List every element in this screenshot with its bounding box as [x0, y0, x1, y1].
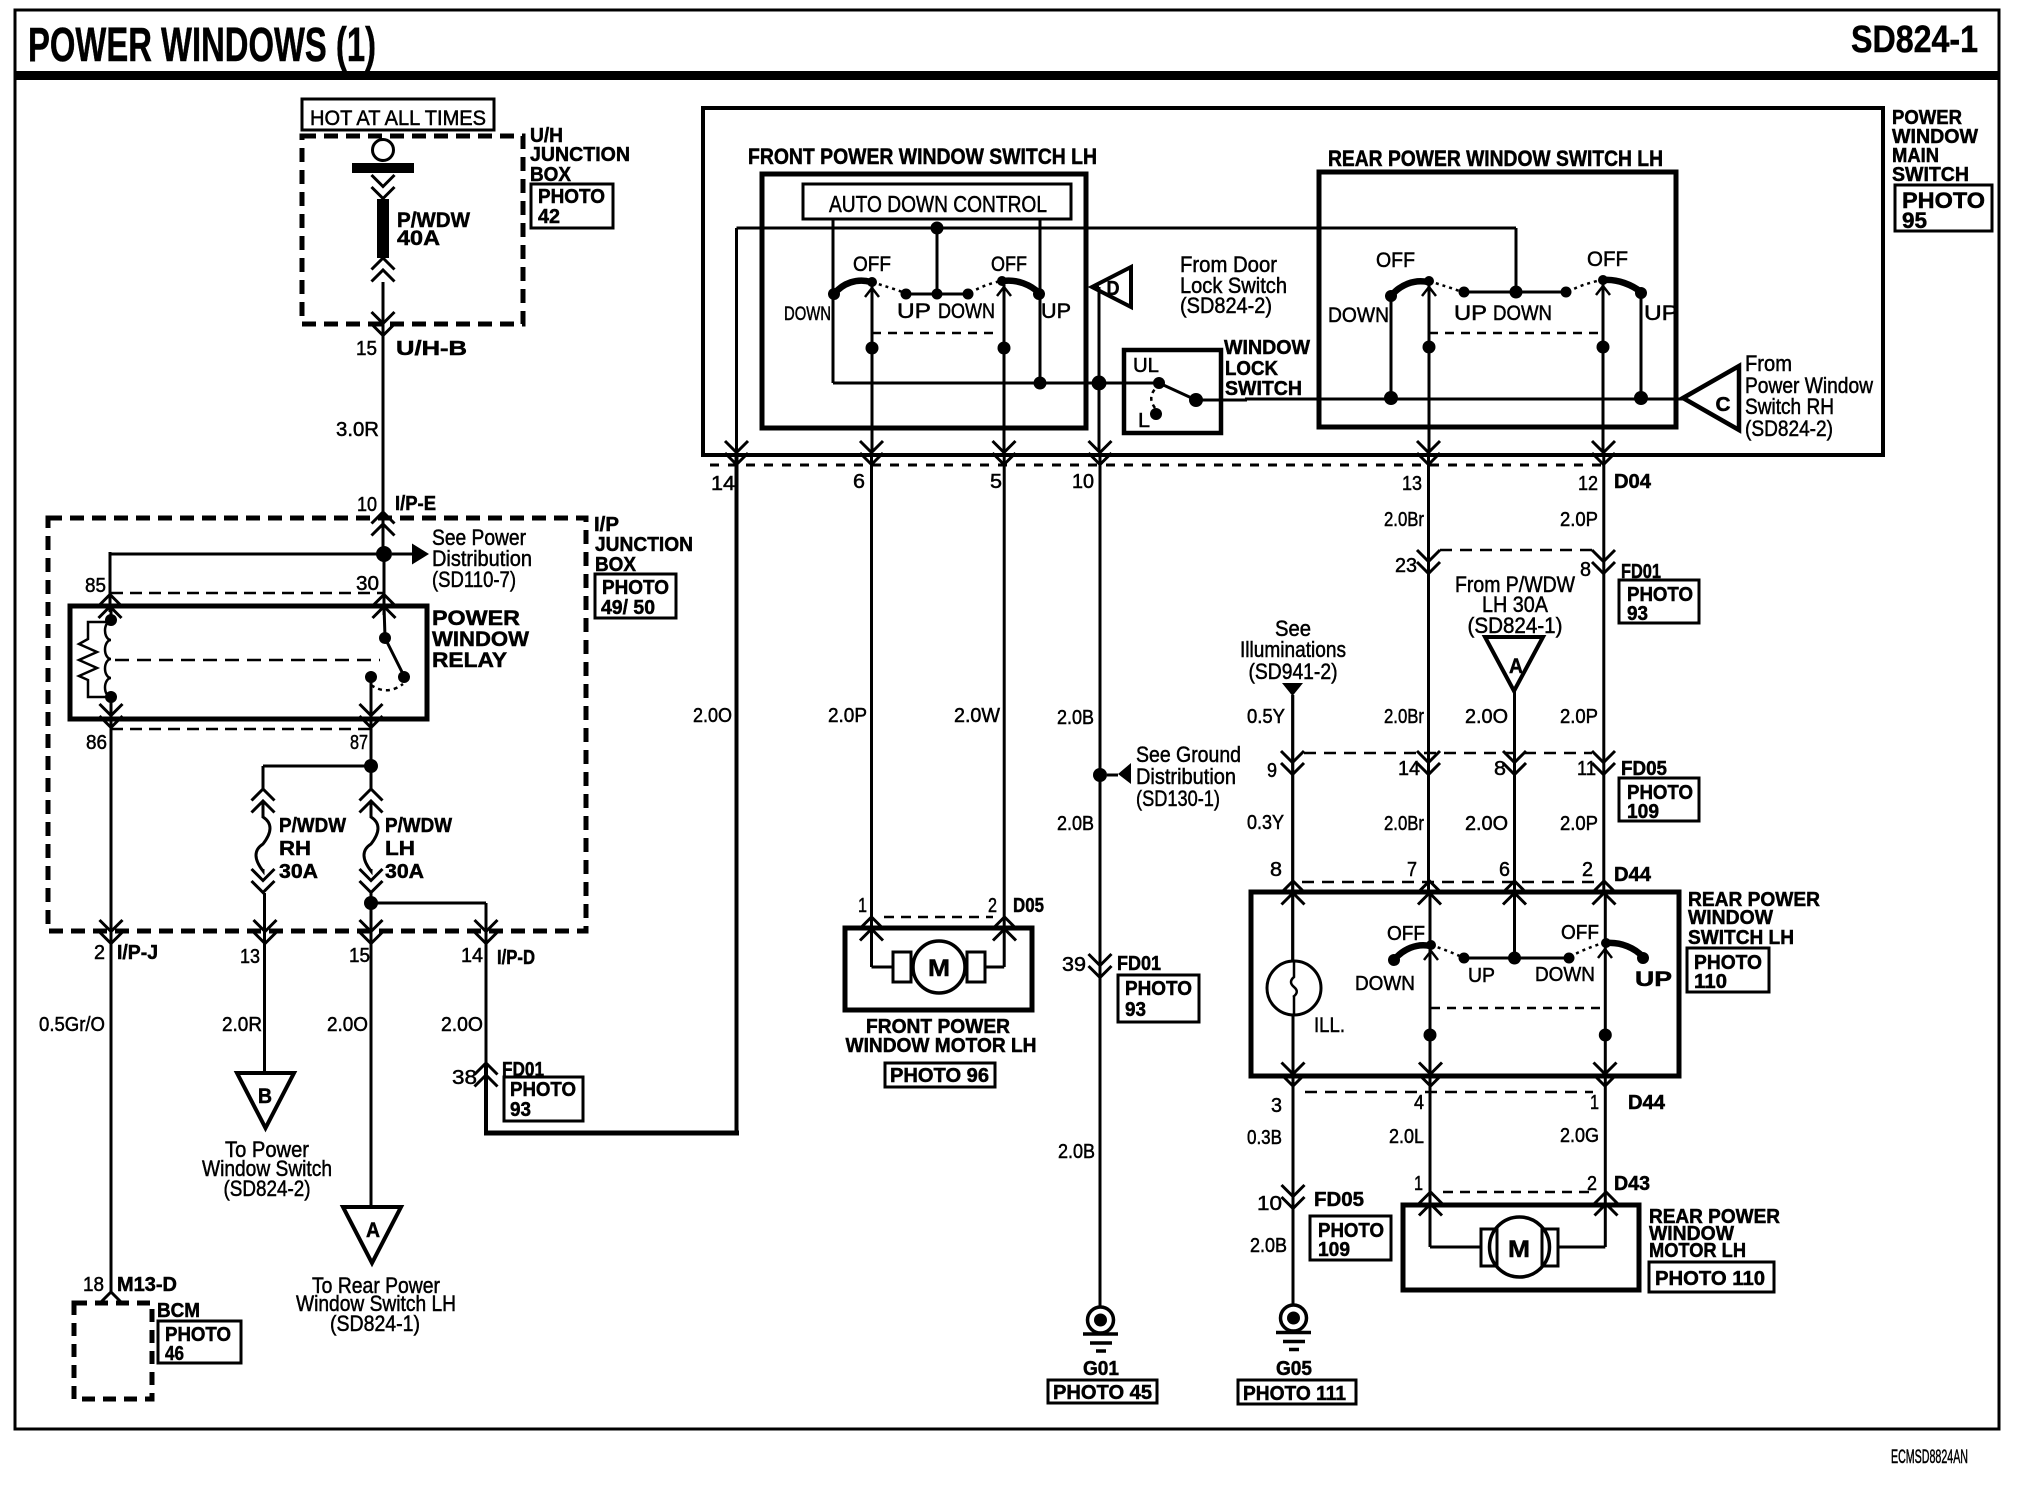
- relay internal dashed separator: [115, 659, 380, 662]
- svg-text:UP: UP: [897, 300, 931, 323]
- svg-text:PHOTO 45: PHOTO 45: [1053, 1382, 1152, 1404]
- rocker arm (thick): [1607, 943, 1643, 957]
- PHOTO 45 box: [1048, 1380, 1157, 1403]
- svg-text:6: 6: [853, 471, 865, 493]
- wire rear switch bottom bus to triangle C: [1245, 398, 1683, 401]
- svg-text:39: 39: [1062, 954, 1086, 976]
- connector FD01 pin 38: [475, 1063, 498, 1087]
- svg-text:2: 2: [988, 895, 997, 917]
- svg-text:93: 93: [1627, 603, 1648, 625]
- PHOTO 96 box: [885, 1063, 995, 1087]
- wire fuse RH / 2.0R to triangle B: [263, 893, 266, 1073]
- svg-text:POWER WINDOWS (1): POWER WINDOWS (1): [28, 19, 376, 72]
- svg-text:87: 87: [350, 732, 368, 754]
- svg-text:30A: 30A: [385, 861, 424, 883]
- svg-text:14: 14: [711, 473, 735, 495]
- connector D44 pin 6: [1503, 881, 1526, 905]
- svg-text:8: 8: [1494, 758, 1506, 780]
- wire DOWN contact down: [1390, 296, 1393, 398]
- svg-text:85: 85: [85, 575, 106, 597]
- svg-text:1: 1: [858, 895, 867, 917]
- connector D43 pin 1: [1419, 1192, 1442, 1216]
- wire to pin 10: [1098, 383, 1101, 452]
- svg-text:ECMSD8824AN: ECMSD8824AN: [1891, 1447, 1968, 1468]
- svg-text:HOT AT ALL TIMES: HOT AT ALL TIMES: [310, 107, 486, 130]
- svg-text:DOWN: DOWN: [1355, 973, 1415, 995]
- svg-text:SWITCH: SWITCH: [1892, 164, 1969, 186]
- rear power window switch box (in main switch): [1319, 172, 1676, 427]
- svg-text:2.0B: 2.0B: [1057, 707, 1094, 729]
- connector pin 15: [360, 920, 383, 944]
- svg-text:2.0P: 2.0P: [828, 705, 867, 727]
- rocker arm (thick): [834, 281, 871, 294]
- front power window switch box: [762, 174, 1086, 428]
- front motor M: [872, 966, 894, 969]
- svg-text:DOWN: DOWN: [1493, 302, 1552, 325]
- svg-text:PHOTO: PHOTO: [538, 186, 605, 208]
- svg-text:A: A: [366, 1219, 380, 1242]
- relay coil: [110, 606, 113, 621]
- wire pivot to pin 5: [1003, 285, 1006, 452]
- svg-text:2.0O: 2.0O: [327, 1014, 368, 1036]
- pivot node: [866, 342, 879, 355]
- svg-text:14: 14: [461, 945, 483, 967]
- contact UP rear-left rocker: [1459, 287, 1470, 298]
- relay connector dashed 86/87: [111, 728, 371, 731]
- svg-text:3.0R: 3.0R: [336, 419, 379, 441]
- lock switch alternate (dashed): [1151, 388, 1156, 408]
- battery feed symbol: [373, 140, 394, 161]
- connector D04 pin 13: [1417, 441, 1440, 465]
- svg-text:15: 15: [356, 338, 377, 360]
- ILL lamp: [1267, 961, 1321, 1015]
- connector D04 pin 10: [1089, 441, 1112, 465]
- connector chevrons below fuse: [372, 258, 395, 282]
- contact DOWN: [1385, 290, 1397, 302]
- svg-text:D05: D05: [1013, 895, 1044, 917]
- window lock switch box: [1124, 350, 1221, 433]
- svg-text:95: 95: [1902, 208, 1927, 233]
- svg-text:P/WDW: P/WDW: [279, 815, 346, 837]
- contact DOWN right rocker: [1564, 953, 1575, 964]
- triangle B to power window switch: [237, 1073, 294, 1128]
- svg-text:1: 1: [1414, 1173, 1423, 1195]
- svg-text:WINDOW: WINDOW: [1688, 907, 1773, 929]
- connector FD05 pin 14: [1417, 751, 1440, 775]
- PHOTO 46 box: [158, 1321, 241, 1363]
- wire fuse to I/P junction: [382, 282, 385, 554]
- contact UP front-left rocker: [901, 289, 912, 300]
- svg-text:POWER: POWER: [432, 607, 520, 630]
- contact UP: [1637, 952, 1649, 964]
- rear motor M: [1430, 1246, 1481, 1249]
- rear power window motor box: [1403, 1205, 1639, 1290]
- svg-text:9: 9: [1267, 760, 1277, 782]
- svg-text:93: 93: [1125, 999, 1146, 1021]
- svg-text:(SD824-2): (SD824-2): [224, 1176, 311, 1201]
- wire 2.0O heavy vertical run to pin 14: [735, 455, 739, 1133]
- svg-text:OFF: OFF: [991, 253, 1027, 276]
- power window relay box: [70, 606, 427, 719]
- svg-text:15: 15: [349, 945, 370, 967]
- connector D44 pin 7: [1418, 881, 1441, 905]
- svg-text:0.5Gr/O: 0.5Gr/O: [39, 1014, 105, 1036]
- svg-text:U/H-B: U/H-B: [396, 338, 467, 360]
- svg-text:12: 12: [1578, 473, 1598, 495]
- connector D04 pin 5: [993, 441, 1016, 465]
- node LH fuse branch: [364, 896, 378, 910]
- connector D44 pin 8: [1282, 881, 1305, 905]
- connector D43 pin 2: [1595, 1192, 1618, 1216]
- connector FD05 pin 10: [1282, 1185, 1305, 1209]
- svg-text:FD05: FD05: [1314, 1189, 1364, 1211]
- D05 connector dashed: [884, 916, 993, 919]
- connector chevrons below battery bar: [372, 175, 395, 199]
- svg-text:2.0O: 2.0O: [441, 1014, 483, 1036]
- connector FD01 pin 8: [1592, 550, 1615, 574]
- svg-text:M13-D: M13-D: [117, 1274, 177, 1296]
- node: power distribution junction: [376, 546, 392, 562]
- svg-text:13: 13: [240, 946, 260, 968]
- svg-text:OFF: OFF: [1387, 923, 1425, 945]
- svg-text:2.0G: 2.0G: [1560, 1125, 1599, 1147]
- svg-text:UL: UL: [1133, 355, 1159, 377]
- rocker throw (dotted): [970, 281, 1001, 293]
- wire pin 87: [370, 681, 373, 766]
- svg-text:OFF: OFF: [1587, 248, 1628, 271]
- svg-text:2.0O: 2.0O: [693, 705, 732, 727]
- svg-text:2: 2: [94, 942, 105, 964]
- contact DOWN rear-right rocker: [1561, 287, 1572, 298]
- connector pin 30: [373, 595, 396, 619]
- svg-text:D43: D43: [1614, 1173, 1650, 1195]
- connector pin 23: [1417, 550, 1440, 574]
- node lock/door-lock junction: [1092, 376, 1107, 391]
- svg-text:2.0P: 2.0P: [1560, 509, 1598, 531]
- PHOTO 110 box (switch): [1687, 948, 1769, 992]
- contact UP: [1033, 288, 1045, 300]
- PHOTO 93 box (FD01 8): [1619, 580, 1699, 623]
- connector pin 86: [100, 704, 123, 728]
- svg-text:0.5Y: 0.5Y: [1247, 706, 1285, 728]
- node pin 87 branch: [364, 759, 378, 773]
- connector row D44 (lower): [1305, 1091, 1593, 1094]
- triangle C from power window switch RH: [1683, 366, 1739, 430]
- svg-text:0.3Y: 0.3Y: [1247, 812, 1284, 834]
- svg-text:FRONT POWER WINDOW SWITCH LH: FRONT POWER WINDOW SWITCH LH: [748, 144, 1097, 169]
- svg-text:C: C: [1716, 394, 1731, 416]
- PHOTO 109 box (FD05 10): [1310, 1216, 1391, 1260]
- svg-text:D44: D44: [1614, 864, 1652, 886]
- connector FD05 pin 8: [1503, 751, 1526, 775]
- svg-text:DOWN: DOWN: [938, 300, 995, 323]
- wire pivot pin 2 / pin 1 / 2.0G to motor: [1604, 891, 1607, 1247]
- wire FD01 38 down: [484, 1063, 488, 1133]
- svg-text:2.0Br: 2.0Br: [1384, 509, 1424, 531]
- svg-text:6: 6: [1499, 859, 1510, 881]
- svg-text:93: 93: [510, 1099, 531, 1121]
- pivot node: [1597, 341, 1610, 354]
- svg-text:ILL.: ILL.: [1314, 1014, 1345, 1037]
- connector I/P-D pin 14: [475, 920, 498, 944]
- svg-text:JUNCTION: JUNCTION: [530, 144, 630, 166]
- svg-text:SWITCH: SWITCH: [1225, 378, 1302, 400]
- svg-text:LOCK: LOCK: [1225, 358, 1279, 380]
- ground G01: [1088, 1307, 1114, 1333]
- wire 0.3B / 2.0B to ground G05: [1292, 1014, 1295, 1306]
- wire 2.0P column: [1602, 455, 1605, 891]
- rocker arm (thick): [1003, 281, 1039, 293]
- wire pin14 feed across to rear switch: [737, 227, 1517, 230]
- wire 2.0Br column: [1427, 455, 1430, 891]
- connector D44 pin 4: [1419, 1063, 1442, 1087]
- svg-text:PHOTO: PHOTO: [510, 1079, 576, 1101]
- svg-text:2: 2: [1582, 859, 1593, 881]
- wire pivot pin 7 / pin 4 / 2.0L to motor: [1429, 891, 1432, 1247]
- wire to relay pin 85: [110, 553, 384, 556]
- svg-text:2.0Br: 2.0Br: [1384, 813, 1424, 835]
- rocker throw (dotted): [1431, 945, 1462, 957]
- PHOTO 93 box (FD01 39): [1118, 975, 1199, 1022]
- wire UP contact down: [1640, 293, 1643, 398]
- rocker throw (dotted): [1568, 280, 1601, 292]
- svg-text:WINDOW: WINDOW: [432, 628, 529, 651]
- U/H junction box (dashed): [302, 136, 523, 324]
- svg-text:10: 10: [1257, 1193, 1282, 1215]
- PHOTO 49/ 50 box: [595, 574, 676, 618]
- rocker throw (dotted): [1429, 281, 1462, 292]
- connector pin 87: [360, 704, 383, 728]
- rear power window switch LH box: [1251, 892, 1679, 1076]
- svg-text:PHOTO 111: PHOTO 111: [1243, 1383, 1346, 1405]
- svg-text:G01: G01: [1083, 1358, 1119, 1380]
- front rocker linkage (dashed): [872, 332, 1000, 335]
- svg-text:2.0B: 2.0B: [1250, 1235, 1287, 1257]
- svg-text:D: D: [1107, 278, 1120, 300]
- relay switch: [384, 606, 385, 637]
- connector D44 pin 3: [1282, 1063, 1305, 1087]
- svg-text:M: M: [928, 955, 950, 982]
- svg-text:109: 109: [1627, 801, 1659, 823]
- fuse P/WDW RH 30A: [252, 789, 275, 893]
- wire branch to P/WDW RH fuse: [263, 765, 371, 768]
- contact DOWN: [828, 288, 840, 300]
- svg-text:2.0B: 2.0B: [1058, 1141, 1095, 1163]
- auto down control box: [803, 184, 1071, 219]
- connector D05 pin 2: [993, 917, 1016, 941]
- svg-text:UP: UP: [1454, 302, 1487, 325]
- wire pivot to pin 12: [1602, 284, 1605, 452]
- wire 0.5Y / 0.3Y to ILL lamp: [1291, 695, 1294, 961]
- svg-text:30A: 30A: [279, 861, 318, 883]
- svg-text:2.0L: 2.0L: [1389, 1126, 1424, 1148]
- svg-text:MOTOR LH: MOTOR LH: [1649, 1240, 1746, 1262]
- svg-text:11: 11: [1577, 758, 1596, 780]
- svg-text:SWITCH LH: SWITCH LH: [1688, 927, 1794, 949]
- wire auto-down right output: [1039, 219, 1042, 383]
- svg-text:PHOTO 110: PHOTO 110: [1655, 1268, 1765, 1290]
- wire fuse LH down: [370, 893, 373, 903]
- svg-text:8: 8: [1270, 859, 1282, 881]
- power window main switch outer box: [703, 108, 1883, 455]
- contact junction: [1510, 286, 1523, 299]
- svg-text:2.0Br: 2.0Br: [1384, 706, 1424, 728]
- connector row 9 / FD05 14 8 11: [1304, 752, 1592, 755]
- node DOWN contact to bus: [1384, 391, 1398, 405]
- connector I/P-J pin 2: [100, 920, 123, 944]
- connector D04 pin 12: [1592, 441, 1615, 465]
- svg-text:G05: G05: [1276, 1358, 1312, 1380]
- svg-text:(SD824-1): (SD824-1): [1468, 613, 1563, 638]
- svg-text:SD824-1: SD824-1: [1851, 19, 1978, 61]
- connector D04 pin 14: [725, 441, 748, 465]
- svg-text:JUNCTION: JUNCTION: [595, 534, 693, 556]
- svg-text:DOWN: DOWN: [784, 304, 831, 325]
- svg-text:10: 10: [1072, 471, 1094, 493]
- wire to center contacts: [936, 228, 939, 294]
- svg-text:WINDOW: WINDOW: [1224, 337, 1310, 359]
- connector FD05 pin 11: [1592, 751, 1615, 775]
- svg-text:DOWN: DOWN: [1328, 304, 1389, 327]
- node see ground distribution: [1093, 768, 1107, 782]
- wire feed down to rear contacts: [1515, 228, 1518, 292]
- svg-text:7: 7: [1407, 859, 1417, 881]
- D43 connector dashed: [1443, 1191, 1594, 1194]
- wire branch to pin 14 I/P-D: [371, 902, 486, 905]
- svg-text:0.3B: 0.3B: [1247, 1127, 1282, 1149]
- wire to window lock switch: [833, 382, 1159, 385]
- svg-text:2.0B: 2.0B: [1057, 813, 1094, 835]
- PHOTO 109 box (FD05): [1619, 778, 1699, 821]
- svg-text:49/ 50: 49/ 50: [601, 597, 655, 619]
- contact UL: [1153, 377, 1165, 389]
- ground G05: [1281, 1305, 1307, 1331]
- connector row D44: [1302, 881, 1594, 884]
- connector D05 pin 1: [860, 917, 883, 941]
- wire pin 86 / 0.5Gr/O to BCM: [110, 697, 113, 1292]
- PHOTO 111 box: [1238, 1380, 1356, 1404]
- relay switch alternate position (dashed): [371, 684, 403, 690]
- svg-text:RH: RH: [279, 838, 311, 860]
- wire auto-down left output: [832, 219, 835, 383]
- svg-text:D04: D04: [1614, 471, 1652, 493]
- node UP contact to bus: [1634, 391, 1648, 405]
- rocker throw (dotted): [872, 282, 905, 293]
- svg-text:PHOTO: PHOTO: [602, 577, 669, 599]
- svg-text:P/WDW: P/WDW: [385, 815, 452, 837]
- svg-text:I/P-E: I/P-E: [395, 493, 436, 515]
- svg-text:UP: UP: [1635, 968, 1672, 991]
- svg-text:BCM: BCM: [157, 1300, 200, 1322]
- wire contact bar: [1464, 957, 1569, 960]
- contact L: [1150, 408, 1162, 420]
- PHOTO 110 box (motor): [1649, 1262, 1774, 1292]
- svg-text:M: M: [1508, 1236, 1530, 1263]
- wire down to pin 85: [109, 552, 112, 612]
- fuse P/WDW LH 30A: [360, 789, 383, 893]
- svg-text:OFF: OFF: [853, 253, 891, 276]
- svg-text:42: 42: [538, 206, 560, 228]
- svg-text:4: 4: [1414, 1092, 1424, 1114]
- wire 2.0O from triangle A to contacts: [1513, 691, 1516, 958]
- svg-text:2.0O: 2.0O: [1465, 813, 1508, 835]
- wire pivot to pin 13: [1428, 285, 1431, 452]
- D04 connector dashed bus: [710, 464, 1604, 467]
- contact junction: [1508, 952, 1521, 965]
- relay connector dashed 85/30: [111, 592, 384, 595]
- svg-text:14: 14: [1398, 758, 1420, 780]
- svg-text:13: 13: [1402, 473, 1422, 495]
- wire 2.0O heavy horizontal run: [484, 1131, 739, 1136]
- svg-text:(SD941-2): (SD941-2): [1249, 659, 1338, 684]
- svg-text:REAR POWER WINDOW SWITCH LH: REAR POWER WINDOW SWITCH LH: [1328, 146, 1663, 171]
- rocker throw (dotted): [1570, 943, 1603, 957]
- svg-text:23: 23: [1395, 555, 1417, 577]
- svg-text:8: 8: [1580, 559, 1591, 581]
- svg-text:AUTO DOWN CONTROL: AUTO DOWN CONTROL: [829, 191, 1047, 217]
- svg-text:40A: 40A: [397, 227, 440, 250]
- wire 2.0P to front motor: [870, 455, 873, 967]
- contact UP: [1635, 287, 1647, 299]
- svg-text:3: 3: [1271, 1095, 1282, 1117]
- connector M13-D pin 18: [100, 1292, 123, 1304]
- svg-text:(SD824-2): (SD824-2): [1180, 293, 1272, 318]
- BCM box (dashed): [74, 1303, 152, 1399]
- lamp filament: [1291, 961, 1297, 1015]
- svg-text:WINDOW MOTOR LH: WINDOW MOTOR LH: [846, 1035, 1037, 1057]
- wire pin 14 down to D04 bus: [735, 228, 738, 455]
- connector D44 pin 1: [1594, 1063, 1617, 1087]
- svg-text:(SD110-7): (SD110-7): [432, 567, 516, 592]
- I/P junction box (dashed): [48, 518, 586, 931]
- svg-text:LH: LH: [385, 838, 415, 860]
- wire contact bar: [906, 293, 968, 296]
- svg-text:I/P: I/P: [594, 514, 619, 536]
- node feed to front contacts: [931, 222, 944, 235]
- HOT AT ALL TIMES box: [302, 99, 494, 130]
- connector pin 9: [1281, 751, 1304, 775]
- svg-text:38: 38: [452, 1067, 477, 1089]
- svg-text:86: 86: [86, 732, 107, 754]
- connector row 23 / FD01 8: [1440, 549, 1592, 552]
- svg-text:I/P-D: I/P-D: [497, 947, 535, 969]
- svg-text:46: 46: [165, 1343, 184, 1365]
- pivot node: [1599, 1029, 1612, 1042]
- svg-text:L: L: [1138, 410, 1150, 432]
- pivot node: [1423, 341, 1436, 354]
- svg-text:2.0W: 2.0W: [954, 705, 1000, 727]
- svg-text:UP: UP: [1468, 965, 1495, 987]
- wire 2.0W to front motor: [1003, 455, 1006, 967]
- svg-text:FD01: FD01: [1117, 953, 1161, 975]
- connector FD01 pin 39: [1089, 954, 1112, 978]
- svg-text:(SD130-1): (SD130-1): [1136, 786, 1220, 811]
- svg-text:RELAY: RELAY: [432, 649, 507, 672]
- fuse P/WDW 40A: [377, 199, 389, 258]
- svg-text:D44: D44: [1628, 1092, 1666, 1114]
- svg-text:2: 2: [1587, 1173, 1597, 1195]
- wire to relay pin 30: [383, 554, 386, 615]
- rocker arm (thick): [1604, 280, 1641, 292]
- wire pivot to pin 6: [871, 286, 874, 452]
- triangle A to rear power window switch LH: [343, 1207, 401, 1263]
- front power window motor box: [845, 928, 1032, 1010]
- svg-text:1: 1: [1590, 1092, 1599, 1114]
- svg-text:2.0P: 2.0P: [1560, 706, 1598, 728]
- svg-text:I/P-J: I/P-J: [117, 942, 158, 964]
- connector pin 13: [254, 920, 277, 944]
- triangle D from door lock switch: [1092, 267, 1131, 307]
